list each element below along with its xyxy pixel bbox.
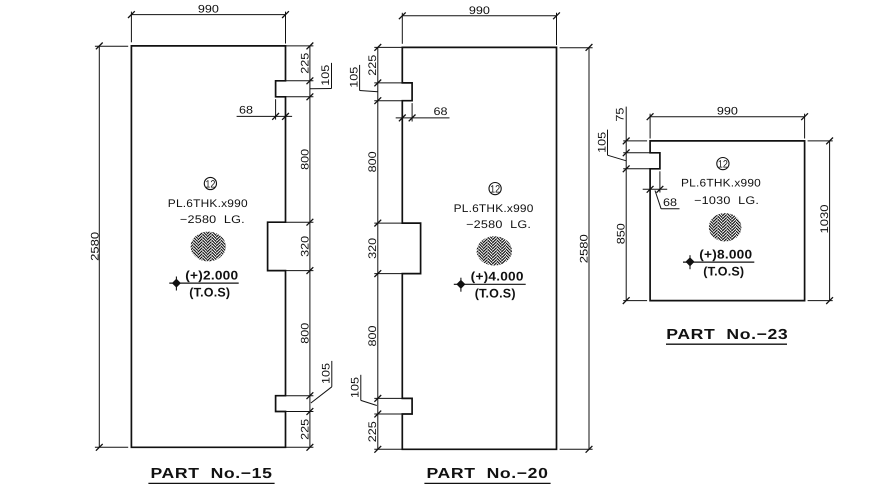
dimension 990 top of part-23 xyxy=(647,106,808,139)
svg-text:−1030 LG.: −1030 LG. xyxy=(694,195,759,207)
left dimension chain line of part-20 xyxy=(374,44,420,453)
svg-text:850: 850 xyxy=(615,223,627,244)
svg-text:PL.6THK.x990: PL.6THK.x990 xyxy=(168,198,248,210)
svg-text:990: 990 xyxy=(469,5,490,17)
svg-text:990: 990 xyxy=(717,106,738,118)
svg-text:225: 225 xyxy=(299,419,311,440)
dimension 68 with leader (notch depth, part-23) xyxy=(643,171,680,209)
svg-text:800: 800 xyxy=(299,323,311,344)
leader label 105 (top notch, part-20) xyxy=(348,65,378,92)
leader label 105 (notch, part-23) xyxy=(597,130,627,161)
steel hatch symbol of part-23 xyxy=(709,213,742,241)
leader label 105 (bottom notch, part-20) xyxy=(350,375,377,406)
svg-text:225: 225 xyxy=(367,421,379,442)
svg-text:PL.6THK.x990: PL.6THK.x990 xyxy=(681,178,761,190)
svg-text:990: 990 xyxy=(198,4,219,16)
dimension 990 top of part-20 xyxy=(399,5,560,45)
dim text 800 (upper left, part-20) xyxy=(367,151,379,172)
svg-text:12: 12 xyxy=(205,178,215,190)
svg-text:225: 225 xyxy=(299,53,311,74)
level mark (+)4.000 T.O.S of part-20 xyxy=(454,270,526,301)
svg-text:12: 12 xyxy=(490,183,500,195)
dim text 800 (lower left, part-20) xyxy=(367,326,379,347)
right dimension chain line of part-15 xyxy=(268,43,314,451)
svg-text:1030: 1030 xyxy=(819,205,831,234)
label PL.6THK.x990 of part-20 xyxy=(454,203,534,215)
label -2580 LG. of part-15 xyxy=(180,214,245,226)
dim text 800 (upper right, part-15) xyxy=(299,149,311,170)
svg-text:800: 800 xyxy=(299,149,311,170)
svg-text:(T.O.S): (T.O.S) xyxy=(703,264,744,278)
dimension 990 top of part-15 xyxy=(128,4,289,44)
steel hatch symbol of part-20 xyxy=(477,236,512,265)
dim text 225 (bottom left, part-20) xyxy=(367,421,379,442)
dimension 2580 left of part-15 xyxy=(89,43,128,451)
label -2580 LG. of part-20 xyxy=(466,219,531,231)
svg-text:PL.6THK.x990: PL.6THK.x990 xyxy=(454,203,534,215)
title PART No.-15 xyxy=(148,466,274,483)
svg-text:105: 105 xyxy=(597,132,609,153)
title PART No.-23 xyxy=(666,327,788,344)
dimension 68 (notch depth, part-15) xyxy=(237,99,293,120)
svg-text:320: 320 xyxy=(299,236,311,257)
label PL.6THK.x990 of part-23 xyxy=(681,178,761,190)
title PART No.-20 xyxy=(424,466,550,483)
dim text 800 (lower right, part-15) xyxy=(299,323,311,344)
svg-text:68: 68 xyxy=(239,104,253,116)
svg-text:−2580 LG.: −2580 LG. xyxy=(180,214,245,226)
svg-text:105: 105 xyxy=(350,377,362,398)
svg-text:PART No.−15: PART No.−15 xyxy=(151,466,273,482)
svg-text:105: 105 xyxy=(320,65,332,86)
svg-text:2580: 2580 xyxy=(578,234,590,263)
level mark (+)8.000 T.O.S of part-23 xyxy=(683,248,754,279)
svg-text:12: 12 xyxy=(718,158,728,170)
svg-text:320: 320 xyxy=(367,238,379,259)
item bubble 12 of part-20 xyxy=(489,183,501,196)
part-20 plate outline xyxy=(402,47,556,449)
svg-text:105: 105 xyxy=(348,67,360,88)
svg-text:−2580 LG.: −2580 LG. xyxy=(466,219,531,231)
leader label 105 (top notch, part-15) xyxy=(310,63,332,89)
svg-text:225: 225 xyxy=(367,55,379,76)
svg-text:(+)2.000: (+)2.000 xyxy=(185,269,238,283)
svg-text:105: 105 xyxy=(321,363,333,384)
dim text 320 (middle left, part-20) xyxy=(367,238,379,259)
dimension 68 (notch depth, part-20) xyxy=(396,103,450,121)
left dimension chain 75/105/850 of part-23 xyxy=(614,107,660,304)
label PL.6THK.x990 of part-15 xyxy=(168,198,248,210)
steel hatch symbol of part-15 xyxy=(191,232,226,262)
svg-text:(T.O.S): (T.O.S) xyxy=(475,287,516,301)
dim text 225 (top right, part-15) xyxy=(299,53,311,74)
dim text 320 (middle right, part-15) xyxy=(299,236,311,257)
svg-text:800: 800 xyxy=(367,326,379,347)
svg-text:PART No.−23: PART No.−23 xyxy=(666,327,788,343)
dimension 1030 right of part-23 xyxy=(808,138,833,305)
level mark (+)2.000 T.O.S of part-15 xyxy=(169,269,238,300)
svg-text:68: 68 xyxy=(434,106,448,118)
dim text 225 (top left, part-20) xyxy=(367,55,379,76)
svg-text:75: 75 xyxy=(614,108,626,122)
dim text 225 (bottom right, part-15) xyxy=(299,419,311,440)
svg-text:800: 800 xyxy=(367,151,379,172)
svg-text:68: 68 xyxy=(663,197,677,209)
svg-text:(+)8.000: (+)8.000 xyxy=(699,248,752,262)
part-15 plate outline xyxy=(131,46,285,447)
svg-text:(T.O.S): (T.O.S) xyxy=(189,285,230,299)
label -1030 LG. of part-23 xyxy=(694,195,759,207)
leader label 105 (bottom notch, part-15) xyxy=(311,361,333,403)
part-23 plate outline xyxy=(650,141,805,301)
item bubble 12 of part-15 xyxy=(204,177,216,190)
svg-text:(+)4.000: (+)4.000 xyxy=(471,270,524,284)
svg-text:PART No.−20: PART No.−20 xyxy=(427,466,549,482)
dimension 2580 right of part-20 xyxy=(560,44,593,453)
item bubble 12 of part-23 xyxy=(717,158,729,171)
svg-text:2580: 2580 xyxy=(89,232,101,261)
